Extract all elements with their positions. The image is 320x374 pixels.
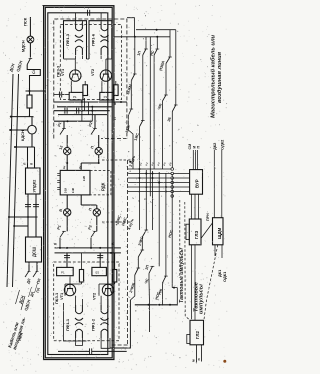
wire loop bbox=[76, 338, 83, 346]
wire ГЛ2 lead bbox=[196, 345, 198, 363]
node bbox=[98, 162, 100, 164]
wire bbox=[64, 58, 76, 60]
transistor VT2 bbox=[100, 70, 111, 81]
boundary dash-dot vertical bbox=[127, 160, 129, 345]
switch Р1 bbox=[62, 128, 66, 130]
svg-text:Р1: Р1 bbox=[73, 95, 77, 99]
wire bbox=[107, 299, 109, 305]
filter enclosure bbox=[64, 21, 87, 59]
wire bbox=[29, 43, 31, 58]
wire bbox=[128, 116, 133, 170]
wire bbox=[28, 262, 30, 271]
wire bbox=[128, 173, 171, 175]
node bbox=[148, 304, 150, 306]
wire dashed bbox=[185, 202, 190, 320]
wire bbox=[115, 81, 117, 85]
resistor bbox=[113, 270, 117, 283]
pin ticks bbox=[57, 173, 60, 175]
block tab bbox=[186, 224, 189, 239]
svg-text:ВУР: ВУР bbox=[195, 179, 200, 188]
svg-text:П: П bbox=[113, 117, 117, 120]
wire bbox=[100, 296, 102, 305]
svg-text:М: М bbox=[113, 102, 117, 105]
node bbox=[14, 146, 16, 148]
svg-text:ПФ1-3: ПФ1-3 bbox=[65, 33, 70, 46]
lamp bbox=[63, 148, 70, 155]
wire bbox=[9, 216, 38, 218]
wire bbox=[137, 257, 139, 268]
wire ПСК lead bbox=[29, 17, 31, 36]
wire bbox=[139, 127, 141, 170]
wire bbox=[192, 150, 194, 170]
transistor VT2 bbox=[102, 284, 113, 295]
svg-text:ГЛ2: ГЛ2 bbox=[195, 331, 200, 339]
wire bbox=[84, 98, 86, 111]
capacitor bbox=[25, 204, 31, 206]
lamp bbox=[95, 148, 102, 155]
svg-text:VT2: VT2 bbox=[90, 68, 95, 76]
wire bbox=[66, 135, 68, 148]
wire bus bbox=[55, 247, 121, 249]
wire bbox=[65, 283, 82, 285]
filter ПФ1-3 bbox=[76, 22, 83, 31]
node bbox=[169, 304, 171, 306]
relay КДСН bbox=[28, 125, 37, 134]
switch bbox=[141, 120, 145, 122]
wire bbox=[194, 194, 196, 219]
wire bbox=[66, 216, 68, 231]
node bbox=[129, 161, 131, 163]
wire bbox=[107, 21, 109, 22]
svg-text:м: м bbox=[192, 359, 196, 362]
wire bbox=[105, 59, 107, 68]
capacitor bbox=[87, 10, 89, 16]
wire bus bbox=[114, 36, 170, 38]
wire bbox=[158, 230, 160, 266]
line ДСН bbox=[7, 74, 13, 287]
wire bbox=[165, 64, 167, 96]
capacitor bbox=[97, 255, 103, 257]
wire bbox=[128, 177, 171, 179]
node bbox=[67, 120, 69, 122]
wire bbox=[59, 238, 61, 248]
wire bbox=[81, 100, 83, 121]
wire bbox=[31, 117, 33, 126]
node bbox=[90, 247, 92, 249]
wire ГЛ2 lead bbox=[201, 345, 203, 362]
wire bbox=[14, 225, 28, 227]
resistor bbox=[79, 270, 83, 283]
node bbox=[13, 225, 15, 227]
wire bbox=[221, 245, 223, 258]
wire bbox=[27, 147, 29, 168]
switch bbox=[33, 271, 37, 277]
node bbox=[10, 116, 12, 118]
wire bbox=[106, 58, 112, 60]
wire bbox=[176, 288, 178, 306]
wire bbox=[145, 37, 147, 49]
wire bbox=[142, 55, 144, 121]
svg-text:УПДК2: УПДК2 bbox=[31, 179, 36, 193]
wire bbox=[98, 284, 100, 296]
block tab bbox=[187, 335, 190, 344]
wire bbox=[153, 55, 155, 169]
wire bbox=[54, 94, 60, 96]
wire bbox=[101, 81, 103, 92]
wire bbox=[64, 284, 66, 296]
wire bbox=[81, 282, 83, 284]
svg-text:ПФ1-6: ПФ1-6 bbox=[91, 33, 96, 46]
wire bbox=[75, 56, 77, 60]
wire bbox=[29, 91, 31, 95]
wire bbox=[162, 101, 164, 169]
switch bbox=[141, 249, 145, 251]
svg-text:импульсы: импульсы bbox=[198, 284, 204, 314]
filter ПФ1-1 bbox=[76, 305, 83, 314]
block ЩДМ bbox=[213, 218, 224, 245]
switch bbox=[137, 267, 141, 269]
wire bbox=[87, 58, 90, 60]
svg-text:ДСШ: ДСШ bbox=[31, 247, 36, 257]
wire bbox=[191, 194, 193, 219]
unit ПКЗ-3 dashed bbox=[60, 25, 121, 100]
wire bbox=[99, 283, 115, 285]
wire bbox=[145, 229, 147, 231]
node bbox=[81, 110, 83, 112]
switch bbox=[144, 48, 148, 50]
wire bbox=[128, 168, 171, 170]
wire bbox=[156, 37, 158, 49]
wire bbox=[130, 275, 134, 300]
block ГЛ2 bbox=[190, 320, 204, 345]
resistor bbox=[114, 85, 119, 96]
wire ДК2 bbox=[213, 150, 215, 218]
wire bbox=[165, 230, 167, 276]
node bbox=[156, 36, 158, 38]
svg-text:воздушная линия: воздушная линия bbox=[217, 51, 223, 103]
svg-text:КДСН: КДСН bbox=[20, 130, 25, 141]
wire bbox=[171, 112, 173, 169]
wire bbox=[107, 56, 109, 60]
svg-text:VT1: VT1 bbox=[60, 68, 65, 76]
svg-text:VT2: VT2 bbox=[92, 292, 97, 300]
wire bbox=[175, 30, 177, 105]
filter enclosure bbox=[64, 303, 87, 341]
wire bus bbox=[57, 106, 112, 108]
lamp bbox=[93, 209, 100, 216]
node bbox=[29, 90, 31, 92]
vertical wires lower bbox=[139, 169, 141, 230]
boundary dash-dot bbox=[110, 344, 128, 346]
wire bbox=[198, 194, 200, 219]
node bbox=[9, 129, 11, 131]
svg-text:Тактовые импульсы: Тактовые импульсы bbox=[179, 247, 185, 303]
svg-text:МДСН: МДСН bbox=[21, 40, 26, 52]
switch bbox=[133, 73, 137, 75]
node bbox=[66, 247, 68, 249]
wire bbox=[141, 237, 143, 250]
wire bus bbox=[136, 29, 176, 31]
frame outer bbox=[44, 6, 114, 360]
wire bbox=[169, 30, 171, 57]
wire bbox=[171, 230, 173, 288]
node bbox=[110, 252, 112, 254]
wire bbox=[114, 253, 116, 270]
svg-text:2-2И: 2-2И bbox=[83, 176, 86, 181]
wire bbox=[197, 150, 199, 170]
svg-text:Р1: Р1 bbox=[61, 271, 65, 275]
relay РДК box bbox=[60, 170, 90, 195]
capacitor bbox=[89, 348, 91, 354]
wire bbox=[35, 194, 37, 217]
node bbox=[156, 29, 158, 31]
svg-text:2-4И: 2-4И bbox=[72, 188, 75, 193]
node bbox=[120, 101, 122, 103]
wire bbox=[70, 81, 72, 92]
wire bbox=[191, 245, 193, 320]
wire bbox=[54, 120, 92, 122]
svg-text:2-1И: 2-1И bbox=[65, 188, 68, 193]
wire bbox=[62, 94, 69, 96]
wire bbox=[63, 121, 65, 128]
wire dashed bbox=[179, 200, 181, 278]
lamp МДСН bbox=[27, 36, 34, 43]
resistor Р1 bbox=[57, 267, 74, 275]
svg-text:РДК: РДК bbox=[100, 182, 105, 191]
wire bbox=[69, 276, 71, 283]
lamp bbox=[63, 209, 70, 216]
wire dashed bbox=[102, 159, 135, 161]
wire bbox=[98, 135, 100, 148]
node bbox=[91, 106, 93, 108]
wire bbox=[96, 216, 98, 231]
filter ПФ1-6 bbox=[101, 22, 108, 31]
node bbox=[8, 216, 10, 218]
switch bbox=[174, 104, 178, 106]
wire bbox=[81, 21, 83, 22]
wire bbox=[127, 18, 134, 37]
wire bbox=[81, 253, 83, 270]
svg-text:ОДК2: ОДК2 bbox=[219, 139, 224, 150]
wire bbox=[148, 273, 150, 280]
node bbox=[66, 162, 68, 164]
capacitor bbox=[64, 255, 70, 257]
block ВУР bbox=[190, 170, 203, 195]
node bbox=[173, 287, 175, 289]
wire bbox=[100, 13, 102, 22]
line ОДСН bbox=[13, 74, 19, 287]
wire bundle bus bottom bbox=[135, 304, 178, 306]
unit ПКЗ-1 dashed bbox=[54, 262, 119, 341]
frame outer second bbox=[45, 7, 112, 357]
wire bbox=[27, 217, 29, 237]
wire bbox=[100, 56, 102, 60]
boundary dash-dot top bbox=[54, 19, 127, 139]
svg-text:Р2: Р2 bbox=[96, 271, 100, 275]
capacitor bbox=[76, 108, 78, 114]
wire bbox=[29, 108, 31, 117]
wire bbox=[161, 283, 163, 305]
switch bbox=[145, 229, 149, 231]
wire bbox=[128, 186, 171, 188]
svg-text:ОДК1: ОДК1 bbox=[222, 271, 227, 282]
svg-text:Р2: Р2 bbox=[104, 95, 108, 99]
wire bbox=[91, 107, 93, 121]
wire bbox=[96, 205, 98, 209]
switch Р1 bbox=[62, 230, 66, 232]
resistor Р2 bbox=[100, 92, 114, 100]
wire bbox=[58, 350, 90, 352]
speck bbox=[223, 360, 226, 363]
switch bbox=[156, 48, 160, 50]
wire bus bbox=[58, 114, 108, 116]
relay РДК dashed bbox=[90, 170, 111, 195]
wire bbox=[107, 281, 109, 284]
switch bbox=[130, 108, 134, 110]
switch С4 bbox=[29, 58, 33, 60]
switch Р2 bbox=[93, 230, 97, 232]
wire bbox=[92, 350, 127, 352]
filter enclosure bbox=[89, 21, 112, 59]
wire bbox=[81, 56, 83, 60]
resistor bbox=[27, 95, 32, 108]
block ГЛЗ bbox=[189, 219, 201, 245]
switch Р2 bbox=[93, 128, 97, 130]
wire bbox=[149, 305, 151, 332]
wire bbox=[11, 116, 34, 118]
wire bbox=[149, 37, 151, 197]
wire bbox=[27, 194, 29, 217]
wire bbox=[194, 150, 196, 170]
wire bbox=[214, 245, 216, 256]
node bbox=[99, 247, 101, 249]
wire bbox=[194, 245, 196, 320]
node bbox=[81, 101, 83, 103]
wire bbox=[36, 262, 38, 271]
terminal strip bbox=[171, 168, 174, 171]
wire bbox=[75, 296, 77, 305]
switch bbox=[168, 56, 172, 58]
wire bbox=[94, 115, 96, 129]
wire bbox=[35, 217, 37, 237]
wire bbox=[80, 195, 82, 205]
node bbox=[134, 36, 136, 38]
wire bbox=[80, 163, 82, 170]
wire bbox=[81, 204, 97, 206]
wire bbox=[10, 129, 28, 131]
svg-text:ПФ1-2: ПФ1-2 bbox=[91, 318, 96, 331]
svg-text:ГЛЗ: ГЛЗ bbox=[194, 231, 199, 239]
wire bbox=[99, 253, 101, 268]
wire dashed bbox=[102, 221, 130, 223]
wire bbox=[15, 146, 35, 148]
wire bbox=[66, 195, 68, 209]
svg-text:П: П bbox=[197, 146, 201, 149]
wire bbox=[128, 191, 171, 193]
relay УПДК2 bbox=[26, 168, 41, 194]
transistor VT1 bbox=[64, 284, 75, 295]
wire bbox=[172, 287, 177, 289]
switch bbox=[164, 94, 168, 96]
capacitor bbox=[59, 92, 61, 98]
node bbox=[59, 247, 61, 249]
wire bus bbox=[55, 252, 121, 254]
wire bbox=[148, 280, 151, 305]
wire bbox=[90, 238, 92, 248]
wire bbox=[128, 182, 171, 184]
wire bbox=[87, 102, 89, 115]
svg-text:ПФ1-1: ПФ1-1 bbox=[65, 318, 70, 331]
node bbox=[91, 110, 93, 112]
wire bbox=[74, 59, 76, 68]
wire loop bbox=[101, 338, 110, 348]
wire bbox=[66, 155, 68, 170]
frame inner bbox=[48, 13, 108, 355]
wire bbox=[81, 162, 99, 164]
wire bus bbox=[54, 110, 110, 112]
svg-text:Магистральный кабель или: Магистральный кабель или bbox=[210, 34, 217, 118]
relay ДСШ bbox=[26, 237, 42, 262]
wire ОДК2 bbox=[221, 150, 223, 218]
wire bbox=[98, 155, 100, 163]
resistor Р2 bbox=[92, 267, 107, 275]
svg-text:п: п bbox=[197, 358, 201, 360]
wire dashed bbox=[204, 245, 218, 321]
svg-text:ПРН: ПРН bbox=[206, 213, 210, 221]
wires to ВУР bbox=[174, 173, 190, 175]
svg-text:ЩДМ: ЩДМ bbox=[217, 227, 222, 239]
filter ПФ1-2 bbox=[101, 305, 108, 314]
wire bbox=[81, 299, 83, 305]
junction dots grid bbox=[139, 168, 141, 170]
transistor VT1 bbox=[70, 70, 81, 81]
wire to bottom loop bbox=[110, 300, 130, 348]
svg-text:ДК2: ДК2 bbox=[212, 142, 217, 150]
wire bbox=[66, 253, 68, 268]
wire bbox=[75, 13, 77, 22]
switch bbox=[164, 275, 168, 277]
svg-text:СМ: СМ bbox=[188, 144, 192, 150]
node bbox=[27, 216, 29, 218]
wire bbox=[34, 147, 36, 168]
switch bbox=[151, 265, 155, 267]
wire hook bbox=[27, 65, 40, 92]
svg-text:ПСК: ПСК bbox=[23, 17, 28, 26]
switch bbox=[25, 271, 29, 277]
link diagonal bbox=[201, 223, 213, 239]
wire bus bbox=[54, 101, 127, 103]
scan texture bbox=[145, 10, 148, 13]
node bbox=[158, 304, 160, 306]
wire bbox=[26, 90, 46, 92]
capacitor bbox=[64, 108, 66, 114]
wire to frame bbox=[134, 37, 136, 74]
resistor bbox=[83, 85, 88, 96]
capacitor bbox=[33, 204, 39, 206]
resistor Р1 bbox=[69, 92, 83, 100]
wire bbox=[31, 134, 33, 147]
wire bbox=[130, 81, 132, 110]
wire bbox=[84, 81, 86, 85]
